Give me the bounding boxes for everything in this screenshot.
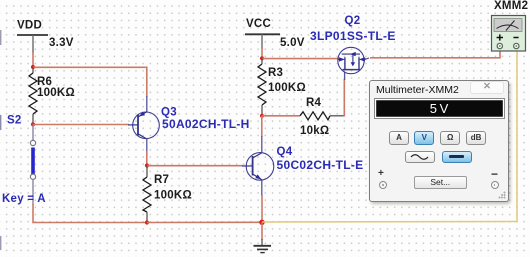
svg-text:R3: R3 (268, 67, 283, 79)
multimeter icon XMM2 (492, 16, 526, 52)
wire ground rail left segment (147, 221, 262, 223)
svg-text:100KΩ: 100KΩ (268, 82, 306, 94)
svg-text:VCC: VCC (246, 18, 271, 30)
wire Q3 collector to node B (146, 139, 148, 166)
resistor R6 (29, 67, 75, 124)
node B junction (145, 163, 149, 167)
wire Q4 emitter to ground node (261, 180, 263, 222)
svg-text:Key = A: Key = A (2, 193, 46, 205)
svg-text:XMM2: XMM2 (494, 0, 528, 12)
plus terminal (379, 181, 387, 189)
svg-text:S2: S2 (7, 115, 22, 127)
node D junction (260, 56, 264, 60)
wire node D to Q2 source (262, 58, 339, 60)
wire ground rail right segment (to XMM2 minus) (262, 49, 517, 222)
node E junction (R3/R4/Q4 collector) (260, 114, 264, 118)
power VCC (245, 18, 305, 49)
transistor Q2 (p-MOSFET) (338, 47, 366, 73)
window title (376, 84, 459, 96)
power VDD (17, 20, 74, 54)
button Set (414, 176, 468, 190)
wire R4 to Q2 gate (343, 73, 345, 117)
wire ground node to ground symbol (261, 222, 263, 240)
svg-text:5.0V: 5.0V (280, 37, 305, 49)
node F junction (ground node) (259, 220, 264, 225)
svg-text:100KΩ: 100KΩ (37, 87, 75, 99)
node A junction (31, 65, 35, 69)
wire Q2 drain to XMM2 plus (365, 48, 500, 59)
minus terminal label (491, 167, 498, 181)
svg-text:VDD: VDD (17, 20, 42, 32)
button V (selected) (414, 131, 434, 145)
wire VDD to node A (32, 52, 34, 67)
button A (389, 131, 409, 145)
resistor R3 (258, 58, 306, 116)
wire node A to Q3 emitter (top run) (33, 67, 147, 112)
svg-text:R4: R4 (306, 97, 322, 109)
svg-text:3.3V: 3.3V (49, 37, 74, 49)
button AC (sine) (405, 151, 435, 163)
button DC (selected) (442, 151, 472, 164)
svg-text:R7: R7 (154, 174, 169, 186)
svg-text:100KΩ: 100KΩ (154, 190, 192, 202)
ground (254, 239, 272, 253)
edge artifact marks (0, 30, 1, 250)
multimeter window XMM2 (369, 80, 509, 202)
svg-text:Q2: Q2 (345, 15, 361, 27)
switch S2 (30, 124, 35, 205)
svg-text:50A02CH-TL-H: 50A02CH-TL-H (162, 117, 250, 131)
plus terminal label (378, 168, 384, 179)
window close button (470, 81, 504, 95)
node S2 junction (31, 122, 35, 126)
wire node B to Q4 base (147, 165, 243, 167)
svg-text:Q4: Q4 (277, 146, 293, 158)
wire node E to Q4 collector (261, 116, 263, 153)
display 5V (374, 98, 505, 119)
button dB (466, 131, 486, 145)
svg-text:3LP01SS-TL-E: 3LP01SS-TL-E (310, 29, 396, 43)
svg-text:10kΩ: 10kΩ (300, 125, 329, 137)
transistor Q4 (NPN) (242, 153, 274, 181)
resistor R4 (262, 97, 345, 137)
minus terminal (491, 181, 499, 189)
transistor Q3 (PNP) (128, 111, 159, 138)
node C junction (R7 bottom on ground rail) (145, 220, 149, 224)
wire S2 node to Q3 base (33, 124, 129, 126)
wire VCC to node D (261, 48, 263, 58)
wire S2 bottom to ground rail (33, 204, 147, 223)
button ohm (440, 131, 460, 145)
svg-text:50C02CH-TL-E: 50C02CH-TL-E (277, 158, 364, 172)
window resize grip (498, 191, 506, 199)
resistor R7 (143, 166, 192, 223)
